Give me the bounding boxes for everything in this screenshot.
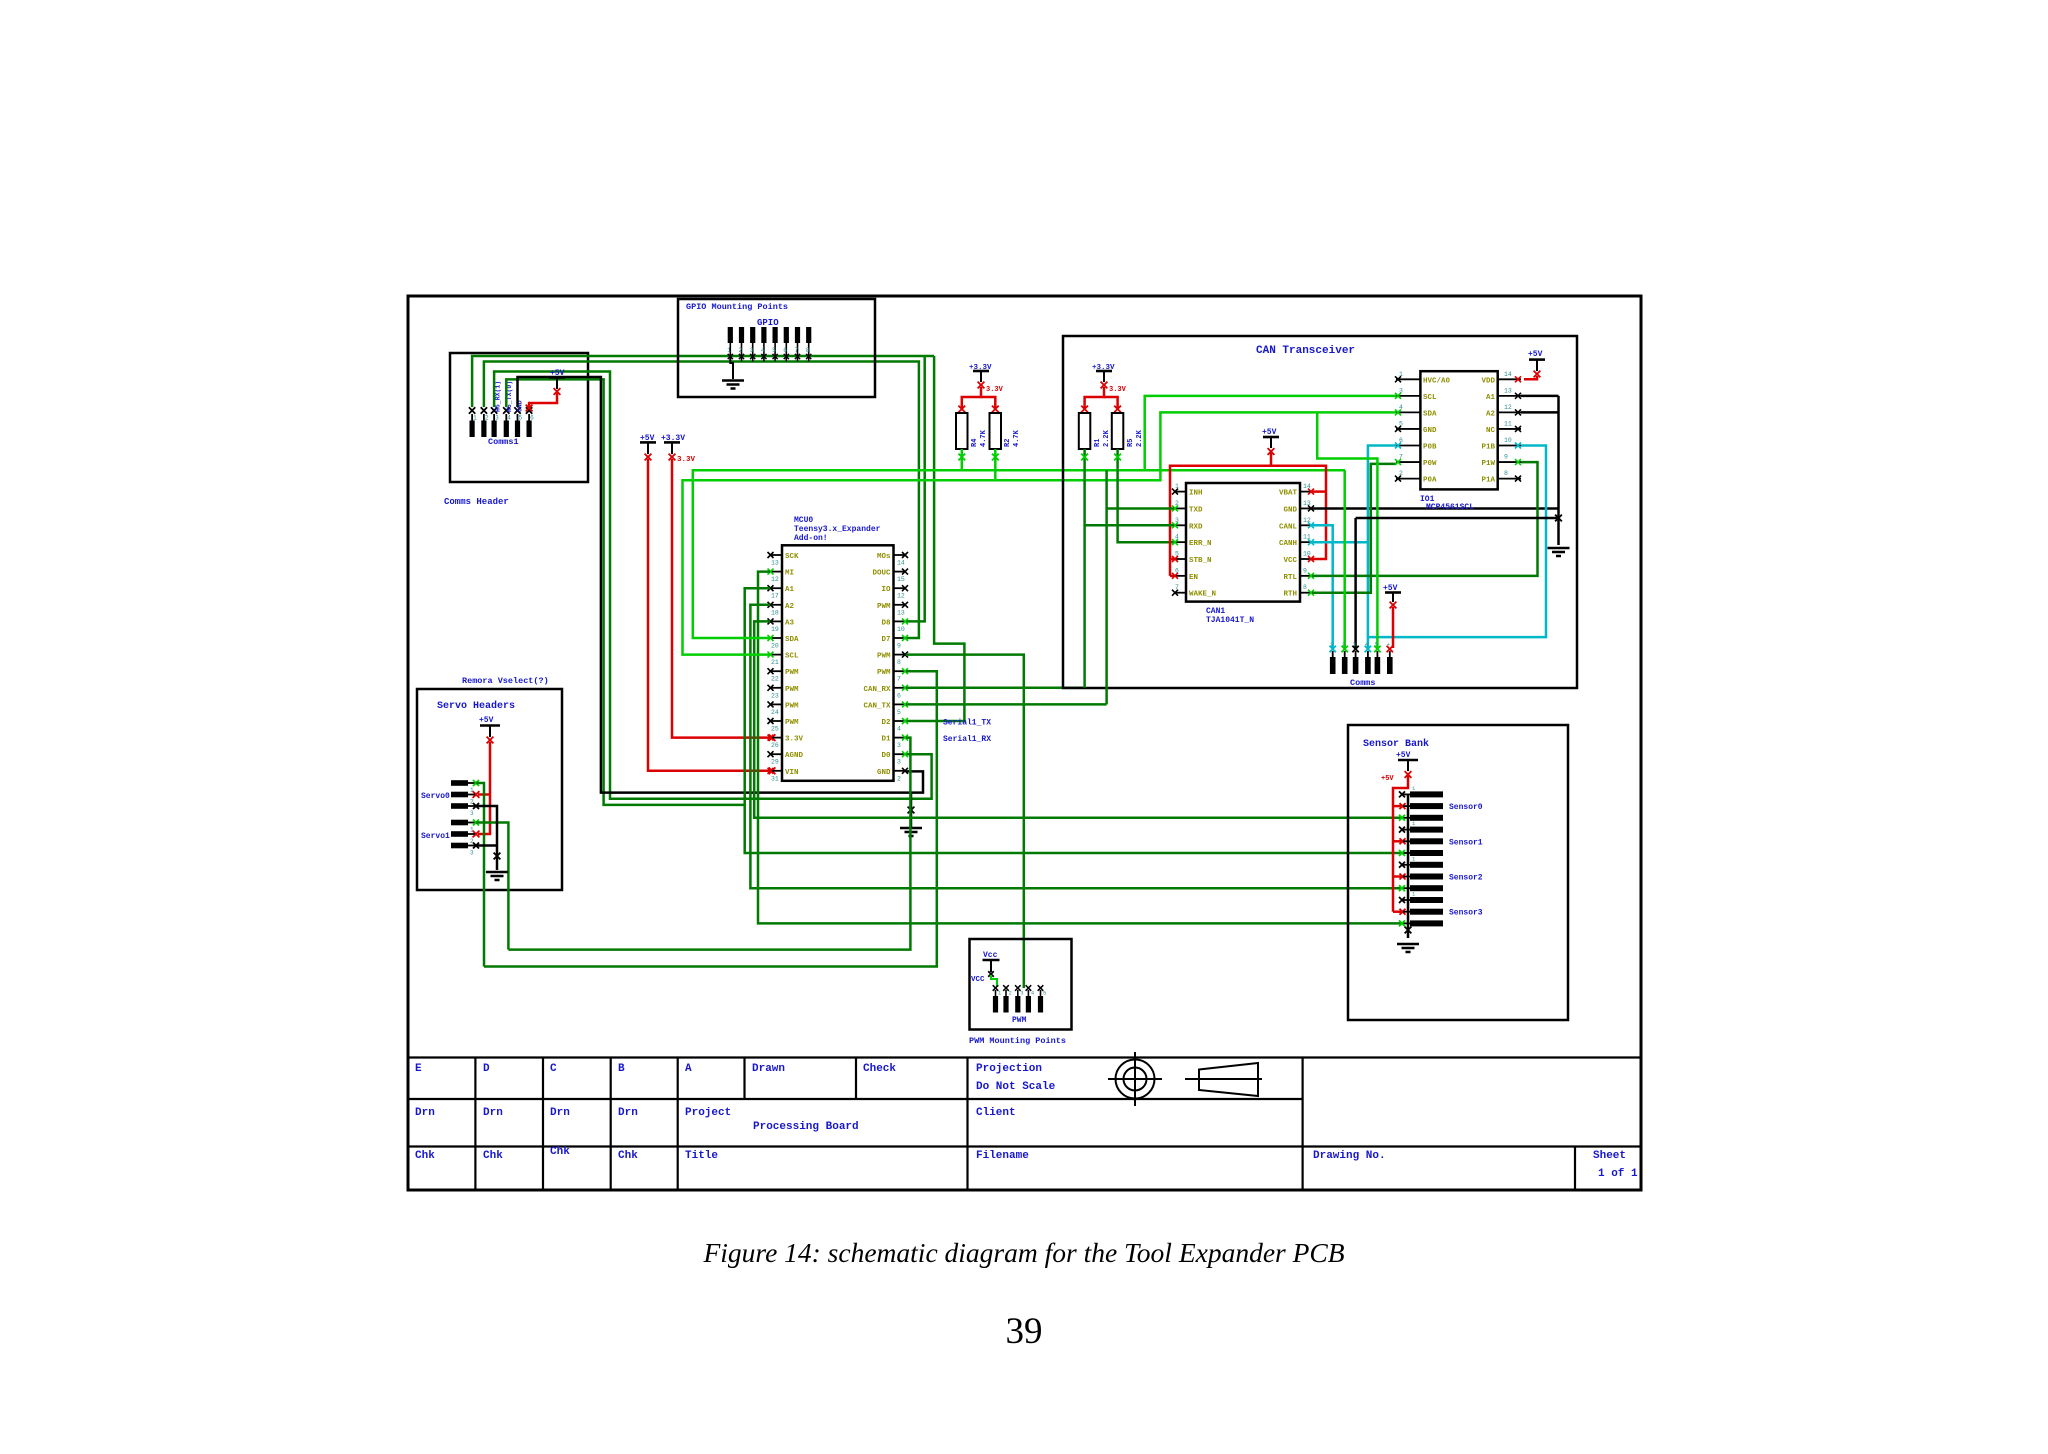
svg-text:3.3V: 3.3V bbox=[677, 456, 696, 464]
svg-text:GND: GND bbox=[1283, 506, 1297, 514]
svg-text:2.2K: 2.2K bbox=[1136, 429, 1144, 447]
svg-text:1: 1 bbox=[1399, 371, 1403, 378]
svg-text:R1: R1 bbox=[1094, 439, 1102, 447]
wire RTH to IO1.P0W bbox=[1312, 464, 1396, 593]
svg-text:6: 6 bbox=[1399, 437, 1403, 444]
svg-text:6: 6 bbox=[1175, 567, 1179, 574]
svg-text:25: 25 bbox=[771, 726, 779, 733]
CAN1 pin 14 VBAT bbox=[1300, 491, 1312, 493]
wire A2 to Sensor2 bbox=[750, 605, 1402, 888]
CAN1 pin 5 STB_N bbox=[1174, 558, 1186, 560]
IO1 pin 3 SCL bbox=[1396, 395, 1420, 397]
svg-text:24: 24 bbox=[771, 709, 779, 716]
svg-text:R2: R2 bbox=[1004, 439, 1012, 447]
MCU pin 19 A3 bbox=[770, 620, 782, 622]
wire R5 / ERR net bbox=[1118, 449, 1174, 542]
svg-text:NC: NC bbox=[1486, 427, 1496, 435]
wire pullup top bbox=[962, 387, 981, 408]
svg-text:PWM: PWM bbox=[785, 702, 799, 710]
svg-text:4: 4 bbox=[507, 415, 511, 422]
svg-text:11: 11 bbox=[1303, 534, 1311, 541]
comms header box bbox=[450, 353, 588, 482]
IO1 pin 5 GND bbox=[1396, 428, 1420, 430]
svg-text:SCK: SCK bbox=[785, 553, 799, 561]
svg-text:2: 2 bbox=[1399, 470, 1403, 477]
svg-text:10: 10 bbox=[897, 626, 905, 633]
svg-text:A: A bbox=[685, 1063, 692, 1075]
wire MI to Sensor3 bbox=[758, 572, 1402, 924]
IO1 pin 8 P1A bbox=[1498, 478, 1521, 480]
svg-text:Sensor0: Sensor0 bbox=[1449, 803, 1483, 812]
wire +5V to servo0.2 bbox=[478, 793, 490, 796]
svg-text:PWM: PWM bbox=[785, 719, 799, 727]
MCU pin 7 PWM bbox=[894, 670, 906, 672]
svg-text:VCC: VCC bbox=[971, 976, 985, 984]
svg-text:SCL: SCL bbox=[785, 653, 799, 661]
svg-text:13: 13 bbox=[1504, 387, 1512, 394]
svg-text:D2: D2 bbox=[881, 719, 891, 727]
svg-text:Drawn: Drawn bbox=[752, 1063, 785, 1075]
svg-text:PWM: PWM bbox=[785, 686, 799, 694]
svg-text:AGND: AGND bbox=[785, 752, 804, 760]
wire D1 to Servo1 bbox=[508, 738, 910, 950]
CAN1 pin 8 RTH bbox=[1300, 592, 1312, 594]
svg-text:GND: GND bbox=[1423, 427, 1437, 435]
svg-text:8: 8 bbox=[806, 347, 810, 354]
MCU pin 13 SCK bbox=[770, 554, 782, 556]
svg-text:Add-on!: Add-on! bbox=[794, 534, 828, 543]
svg-text:2: 2 bbox=[485, 415, 489, 422]
svg-text:21: 21 bbox=[771, 659, 779, 666]
MCU pin 14 MOs bbox=[894, 554, 906, 556]
wire CAN_RX to CAN1.RXD bbox=[906, 687, 1085, 690]
svg-text:STB_N: STB_N bbox=[1189, 557, 1212, 565]
svg-text:H5_RX(1): H5_RX(1) bbox=[495, 381, 502, 412]
svg-text:4: 4 bbox=[1399, 404, 1403, 411]
svg-text:VBAT: VBAT bbox=[1279, 490, 1298, 498]
svg-text:8: 8 bbox=[1504, 470, 1508, 477]
svg-text:CANH: CANH bbox=[1279, 540, 1297, 548]
MCU pin 18 A2 bbox=[770, 604, 782, 606]
svg-text:GPIO Mounting Points: GPIO Mounting Points bbox=[686, 302, 788, 312]
connector Sensor2 bbox=[1410, 862, 1443, 868]
resistor R1 2.2K bbox=[1079, 413, 1091, 449]
wire servo0.1 signal bbox=[476, 783, 484, 967]
IO1 pin 10 P1B bbox=[1498, 445, 1521, 447]
svg-text:Servo1: Servo1 bbox=[421, 832, 450, 841]
MCU U1 Teensy3.x_Expander bbox=[782, 545, 894, 781]
svg-text:9: 9 bbox=[897, 643, 901, 650]
svg-text:D8: D8 bbox=[881, 619, 891, 627]
servo headers box bbox=[417, 689, 562, 890]
wire SDA tap to comms pin5 bbox=[1317, 412, 1377, 649]
digital pot U3 IO1 MCP4561 bbox=[1420, 371, 1497, 489]
svg-text:+5V: +5V bbox=[1528, 350, 1543, 359]
resistor R4 4.7K bbox=[956, 413, 968, 449]
wire CAN_TX to CAN1.TXD bbox=[906, 703, 1107, 706]
svg-text:20: 20 bbox=[771, 643, 779, 650]
svg-text:Sensor2: Sensor2 bbox=[1449, 874, 1483, 883]
svg-text:P1B: P1B bbox=[1481, 444, 1495, 452]
svg-text:A1: A1 bbox=[1486, 394, 1496, 402]
svg-text:4: 4 bbox=[761, 347, 765, 354]
svg-text:SDA: SDA bbox=[1423, 410, 1437, 418]
svg-text:19: 19 bbox=[771, 626, 779, 633]
MCU pin 4 D2 bbox=[894, 720, 906, 722]
resistor R2 4.7K bbox=[990, 413, 1002, 449]
MCU pin 9 D7 bbox=[894, 637, 906, 639]
IO1 pin 1 HVC/A0 bbox=[1396, 378, 1420, 380]
wire CANH bbox=[1312, 541, 1368, 544]
IO1 pin 6 P0B bbox=[1396, 445, 1420, 447]
svg-text:3: 3 bbox=[1399, 387, 1403, 394]
svg-text:B: B bbox=[618, 1063, 625, 1075]
svg-text:Remora Vselect(?): Remora Vselect(?) bbox=[462, 676, 549, 686]
CAN1 pin 12 CANL bbox=[1300, 524, 1312, 526]
wire PWM to Servo0 bbox=[484, 671, 937, 966]
svg-text:1: 1 bbox=[470, 827, 474, 834]
CAN1 pin 3 RXD bbox=[1174, 524, 1186, 526]
svg-text:E: E bbox=[415, 1063, 422, 1075]
drawing frame border bbox=[408, 296, 1641, 1190]
svg-text:PWM: PWM bbox=[877, 653, 891, 661]
IO1 pin 7 P0W bbox=[1396, 461, 1420, 463]
wire P0B/CANH vertical to comms pin4 bbox=[1368, 446, 1396, 650]
MCU pin 12 IO bbox=[894, 587, 906, 589]
svg-text:CANL: CANL bbox=[1279, 523, 1298, 531]
wire RTL to IO1.P1W bbox=[1312, 462, 1538, 576]
svg-text:DOUC: DOUC bbox=[872, 570, 891, 578]
IO1 pin 12 A2 bbox=[1498, 411, 1521, 413]
connector Servo1 bbox=[451, 820, 468, 826]
MCU pin 22 PWM bbox=[770, 670, 782, 672]
CAN1 pin 6 EN bbox=[1174, 575, 1186, 577]
svg-text:D7: D7 bbox=[881, 636, 890, 644]
svg-text:22: 22 bbox=[771, 676, 779, 683]
connector Sensor1 bbox=[1410, 827, 1443, 833]
svg-text:CAN_RX: CAN_RX bbox=[863, 686, 891, 694]
MCU pin 15 DOUC bbox=[894, 571, 906, 573]
svg-text:10: 10 bbox=[1504, 437, 1512, 444]
MCU pin 6 CAN_RX bbox=[894, 687, 906, 689]
MCU pin 3 D0 bbox=[894, 753, 906, 755]
ground (GPIO) bbox=[730, 357, 733, 379]
svg-text:EN: EN bbox=[1189, 574, 1198, 582]
svg-text:1: 1 bbox=[470, 787, 474, 794]
MCU pin 31 VIN bbox=[770, 770, 782, 772]
svg-text:CAN Transceiver: CAN Transceiver bbox=[1256, 345, 1355, 357]
wire SDA/SCL bus bbox=[693, 470, 1345, 638]
svg-text:R5: R5 bbox=[1127, 439, 1135, 447]
wire GND tap to comms pin3 bbox=[1354, 518, 1357, 649]
svg-text:26: 26 bbox=[771, 742, 779, 749]
svg-text:3: 3 bbox=[470, 810, 474, 817]
svg-text:3: 3 bbox=[1175, 517, 1179, 524]
svg-text:1 of 1: 1 of 1 bbox=[1598, 1168, 1638, 1180]
wire CAN1 VCC/EN red rail bbox=[1170, 466, 1326, 576]
wire VBAT tap bbox=[1312, 490, 1326, 493]
wire A1 to Sensor1 bbox=[745, 588, 1402, 853]
wire comms1.4 to A1 net bbox=[506, 379, 744, 805]
svg-text:7: 7 bbox=[1175, 584, 1179, 591]
MCU pin 3 D1 bbox=[894, 737, 906, 739]
svg-text:CAN1: CAN1 bbox=[1206, 607, 1225, 616]
MCU pin 23 PWM bbox=[770, 687, 782, 689]
MCU pin 5 CAN_TX bbox=[894, 703, 906, 705]
svg-text:Figure 14: schematic diagram f: Figure 14: schematic diagram for the Too… bbox=[702, 1237, 1344, 1268]
svg-text:5: 5 bbox=[519, 415, 523, 422]
svg-text:5: 5 bbox=[1043, 990, 1046, 997]
svg-text:P0W: P0W bbox=[1423, 460, 1437, 468]
svg-text:8: 8 bbox=[1303, 584, 1307, 591]
svg-text:P0A: P0A bbox=[1423, 477, 1437, 485]
svg-text:14: 14 bbox=[1303, 483, 1311, 490]
connector Comms (CAN) bbox=[1330, 646, 1336, 652]
CAN1 pin 13 GND bbox=[1300, 507, 1312, 509]
wire +5V to comms1.6 bbox=[529, 393, 557, 407]
connector Servo0 bbox=[451, 780, 468, 786]
svg-text:5: 5 bbox=[772, 347, 776, 354]
svg-text:3: 3 bbox=[1353, 641, 1356, 648]
wire IO1.A2 bbox=[1521, 411, 1559, 414]
svg-text:MCU0: MCU0 bbox=[794, 516, 813, 525]
CAN1 pin 11 CANH bbox=[1300, 541, 1312, 543]
svg-text:Filename: Filename bbox=[976, 1150, 1029, 1162]
CAN transceiver group box bbox=[1063, 336, 1577, 688]
svg-text:Title: Title bbox=[685, 1150, 718, 1162]
GPIO mounting points box bbox=[678, 299, 875, 397]
connector Sensor0 bbox=[1410, 791, 1443, 797]
svg-text:D0: D0 bbox=[881, 752, 891, 760]
MCU pin 26 3.3V bbox=[770, 737, 782, 739]
wire CAN1 GND to ground bbox=[1312, 507, 1559, 510]
svg-text:MI: MI bbox=[785, 570, 794, 578]
sensor bank box bbox=[1348, 725, 1568, 1020]
projection cone symbol bbox=[1185, 1078, 1262, 1080]
IO1 pin 11 NC bbox=[1498, 428, 1521, 430]
svg-text:Drn: Drn bbox=[550, 1107, 570, 1119]
CAN1 pin 7 WAKE_N bbox=[1174, 592, 1186, 594]
svg-text:PWM: PWM bbox=[877, 603, 891, 611]
svg-text:Sensor3: Sensor3 bbox=[1449, 909, 1483, 918]
svg-text:Servo0: Servo0 bbox=[421, 792, 450, 801]
svg-text:2: 2 bbox=[1175, 500, 1179, 507]
svg-text:RTL: RTL bbox=[1283, 574, 1297, 582]
svg-text:SCL: SCL bbox=[1423, 394, 1437, 402]
svg-text:A2: A2 bbox=[1486, 410, 1496, 418]
svg-text:3.3V: 3.3V bbox=[986, 386, 1004, 394]
CAN1 pin 9 RTL bbox=[1300, 575, 1312, 577]
svg-text:3: 3 bbox=[495, 415, 499, 422]
svg-text:GND: GND bbox=[877, 769, 891, 777]
wire servo grounds bbox=[476, 806, 497, 870]
svg-text:18: 18 bbox=[771, 609, 779, 616]
svg-text:A1: A1 bbox=[785, 586, 795, 594]
svg-text:14: 14 bbox=[897, 560, 905, 567]
wire to MCU D2 bbox=[906, 356, 964, 721]
wire bus riser to IO1.SCL bbox=[1145, 396, 1396, 470]
ground (CAN area) bbox=[1548, 548, 1570, 556]
wire +5V to VDD bbox=[1524, 376, 1537, 379]
wire P1B loop bbox=[1368, 446, 1546, 638]
wire to MCU D8 bbox=[906, 356, 925, 621]
title block grid bbox=[408, 1056, 1641, 1058]
svg-text:2: 2 bbox=[1342, 641, 1345, 648]
svg-text:6: 6 bbox=[897, 692, 901, 699]
svg-text:4: 4 bbox=[1175, 534, 1179, 541]
svg-text:R4: R4 bbox=[971, 439, 979, 447]
wire GND tap horizontal bbox=[1356, 517, 1559, 520]
connector Sensor3 bbox=[1410, 897, 1443, 903]
svg-text:3: 3 bbox=[1020, 990, 1023, 997]
svg-text:13: 13 bbox=[1303, 500, 1311, 507]
wire +5V servo power bbox=[478, 742, 490, 834]
svg-text:2: 2 bbox=[739, 347, 743, 354]
GPIO header pins bbox=[728, 327, 733, 343]
svg-text:+5V: +5V bbox=[1396, 751, 1411, 760]
wire sensor +5V bus bbox=[1393, 776, 1408, 912]
svg-text:5: 5 bbox=[897, 709, 901, 716]
svg-text:CAN_TX: CAN_TX bbox=[863, 702, 891, 710]
svg-text:2: 2 bbox=[897, 775, 901, 782]
MCU pin 24 PWM bbox=[770, 703, 782, 705]
svg-text:+5V: +5V bbox=[479, 716, 494, 725]
svg-text:Comms Header: Comms Header bbox=[444, 497, 509, 507]
svg-text:VDD: VDD bbox=[1481, 377, 1495, 385]
MCU pin 2 GND bbox=[894, 770, 906, 772]
svg-text:+: + bbox=[1387, 641, 1390, 648]
svg-text:Servo Headers: Servo Headers bbox=[437, 700, 515, 712]
svg-text:Drn: Drn bbox=[618, 1107, 638, 1119]
svg-text:Serial1_RX: Serial1_RX bbox=[943, 735, 991, 744]
svg-text:WAKE_N: WAKE_N bbox=[1189, 591, 1216, 599]
svg-text:Drawing No.: Drawing No. bbox=[1313, 1150, 1386, 1162]
svg-text:Project: Project bbox=[685, 1107, 731, 1119]
wire TXD horizontal bbox=[1107, 507, 1174, 510]
ground (below MCU) bbox=[910, 793, 913, 827]
svg-text:2.2K: 2.2K bbox=[1103, 429, 1111, 447]
svg-text:Vcc: Vcc bbox=[983, 951, 998, 960]
svg-text:14: 14 bbox=[1504, 371, 1512, 378]
wire R2 to SCL bus bbox=[994, 449, 997, 480]
first-angle projection symbol bbox=[1116, 1060, 1155, 1099]
svg-text:1: 1 bbox=[1175, 483, 1179, 490]
svg-text:P1A: P1A bbox=[1481, 477, 1495, 485]
MCU pin 17 A1 bbox=[770, 587, 782, 589]
wire +5V to comms pin6 bbox=[1392, 607, 1395, 648]
svg-text:7: 7 bbox=[1399, 454, 1403, 461]
wire servo1.1 signal bbox=[476, 823, 508, 950]
svg-text:29: 29 bbox=[771, 759, 779, 766]
wire CANL to comms pin1 bbox=[1312, 525, 1333, 649]
wire comms1.1 bus bbox=[472, 356, 934, 407]
PWM mounting points box bbox=[970, 939, 1072, 1030]
svg-text:9: 9 bbox=[1303, 567, 1307, 574]
svg-text:Sensor Bank: Sensor Bank bbox=[1363, 738, 1429, 750]
svg-text:3: 3 bbox=[470, 850, 474, 857]
svg-text:Serial1_TX: Serial1_TX bbox=[943, 719, 991, 728]
svg-text:Projection: Projection bbox=[976, 1063, 1042, 1075]
svg-text:3: 3 bbox=[750, 347, 754, 354]
svg-text:Chk: Chk bbox=[618, 1150, 638, 1162]
svg-text:Check: Check bbox=[863, 1063, 896, 1075]
transceiver U2 CAN1 TJA1041 bbox=[1186, 483, 1300, 602]
svg-text:3.3V: 3.3V bbox=[785, 736, 804, 744]
svg-text:VIN: VIN bbox=[785, 769, 799, 777]
ground (sensor bank) bbox=[1397, 944, 1419, 952]
MCU pin 25 PWM bbox=[770, 720, 782, 722]
wire SCL tap to comms pin2 bbox=[1343, 470, 1346, 649]
svg-text:5: 5 bbox=[1175, 551, 1179, 558]
svg-text:31: 31 bbox=[771, 775, 779, 782]
wire +3.3V to 3.3V pin bbox=[672, 459, 770, 738]
svg-text:Teensy3.x_Expander: Teensy3.x_Expander bbox=[794, 525, 881, 534]
svg-text:Sensor1: Sensor1 bbox=[1449, 838, 1483, 847]
svg-text:1: 1 bbox=[727, 347, 731, 354]
svg-text:9: 9 bbox=[1504, 454, 1508, 461]
CAN1 pin 1 INH bbox=[1174, 491, 1186, 493]
svg-text:Drn: Drn bbox=[415, 1107, 435, 1119]
CAN1 pin 2 TXD bbox=[1174, 507, 1186, 509]
wire A1/A2 ground vertical bbox=[1557, 396, 1560, 545]
svg-text:4.7K: 4.7K bbox=[980, 429, 988, 447]
svg-text:Client: Client bbox=[976, 1107, 1016, 1119]
svg-text:GPIO: GPIO bbox=[757, 318, 779, 328]
resistor R5 2.2K bbox=[1112, 413, 1124, 449]
svg-text:D1: D1 bbox=[881, 736, 891, 744]
svg-text:12: 12 bbox=[771, 576, 779, 583]
svg-text:Drn: Drn bbox=[483, 1107, 503, 1119]
svg-text:Chk: Chk bbox=[483, 1150, 503, 1162]
wire IO1.A1 bbox=[1521, 395, 1559, 398]
wire R1 / RXD net vertical bbox=[1083, 449, 1086, 688]
wire comms1.2 to MCU D7 bbox=[484, 362, 919, 639]
svg-text:4: 4 bbox=[897, 726, 901, 733]
svg-text:MCP4561SCL: MCP4561SCL bbox=[1426, 503, 1474, 512]
svg-text:Chk: Chk bbox=[550, 1146, 570, 1158]
svg-text:INH: INH bbox=[1189, 490, 1203, 498]
svg-text:PWM Mounting Points: PWM Mounting Points bbox=[969, 1036, 1066, 1046]
wire SCL bus to IO1.SDA bbox=[683, 412, 1397, 654]
svg-text:SDA: SDA bbox=[785, 636, 799, 644]
MCU pin 29 AGND bbox=[770, 753, 782, 755]
wire Vcc to PWM pin1 bbox=[991, 975, 997, 986]
svg-text:A2: A2 bbox=[785, 603, 795, 611]
MCU pin 12 MI bbox=[770, 571, 782, 573]
IO1 pin 4 SDA bbox=[1396, 411, 1420, 413]
svg-text:23: 23 bbox=[771, 692, 779, 699]
svg-text:5: 5 bbox=[1374, 641, 1377, 648]
svg-text:PWM: PWM bbox=[785, 669, 799, 677]
MCU pin 21 SCL bbox=[770, 654, 782, 656]
svg-text:Comms1: Comms1 bbox=[488, 437, 519, 447]
svg-text:12: 12 bbox=[1504, 404, 1512, 411]
wire comms1.5 ground net bbox=[518, 377, 924, 793]
svg-text:MOs: MOs bbox=[877, 553, 891, 561]
wire sensor ground bus bbox=[1407, 794, 1410, 938]
svg-text:7: 7 bbox=[795, 347, 799, 354]
svg-text:4.7K: 4.7K bbox=[1013, 429, 1021, 447]
CAN1 pin 10 VCC bbox=[1300, 558, 1312, 560]
wire comms1.3 to MCU D0 bbox=[494, 372, 931, 799]
svg-text:VCC: VCC bbox=[1283, 557, 1297, 565]
wire TXD net vertical bbox=[1105, 470, 1108, 704]
IO1 pin 2 P0A bbox=[1396, 478, 1420, 480]
svg-text:12: 12 bbox=[897, 593, 905, 600]
svg-text:P1W: P1W bbox=[1481, 460, 1495, 468]
svg-text:TJA1041T_N: TJA1041T_N bbox=[1206, 616, 1254, 625]
svg-text:12: 12 bbox=[1303, 517, 1311, 524]
